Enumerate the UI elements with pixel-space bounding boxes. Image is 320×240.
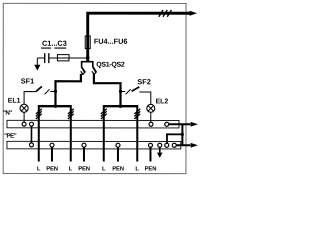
svg-text:PEN: PEN [112, 166, 124, 172]
svg-text:SF1: SF1 [21, 77, 34, 86]
svg-text:L: L [37, 166, 41, 172]
svg-text:SF2: SF2 [137, 77, 150, 86]
svg-text:PEN: PEN [46, 166, 58, 172]
svg-text:L: L [69, 166, 73, 172]
svg-text:L: L [135, 166, 139, 172]
svg-text:"PE": "PE" [4, 133, 17, 140]
svg-text:EL1: EL1 [8, 98, 21, 105]
svg-text:C1...C3: C1...C3 [42, 39, 67, 48]
svg-text:FU4...FU6: FU4...FU6 [94, 37, 128, 46]
svg-text:PEN: PEN [145, 166, 157, 172]
svg-text:QS1-QS2: QS1-QS2 [96, 62, 125, 69]
svg-text:"N": "N" [3, 110, 12, 117]
svg-text:EL2: EL2 [156, 98, 169, 105]
svg-text:PEN: PEN [78, 166, 90, 172]
svg-text:L: L [102, 166, 106, 172]
